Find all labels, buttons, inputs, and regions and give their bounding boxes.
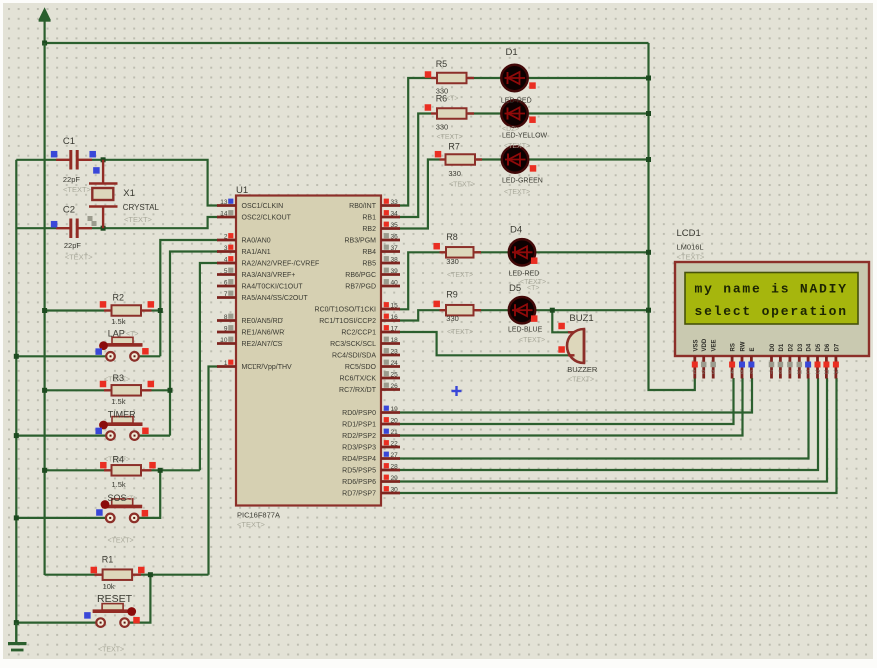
label D4 — [510, 225, 522, 236]
LCD1 TEXT placeholder — [677, 253, 706, 262]
wire pin19 to LCD E — [399, 378, 752, 413]
svg-text:RB0/INT: RB0/INT — [349, 203, 377, 210]
svg-text:6: 6 — [750, 370, 753, 376]
wire pin21 to LCD RW — [399, 378, 743, 436]
svg-text:<TEXT>: <TEXT> — [568, 377, 594, 384]
LCD pin 3 number — [710, 362, 716, 376]
terminal marker R1 right — [138, 567, 145, 574]
resistor R5 — [431, 73, 474, 84]
U1 pin label RD2/PSP2 — [342, 433, 376, 440]
wire TIMER button right — [139, 435, 170, 437]
LCD1 reference label — [677, 228, 701, 239]
svg-text:OSC2/CLKOUT: OSC2/CLKOUT — [242, 215, 292, 222]
U1 pin label RD6/PSP6 — [342, 479, 376, 486]
U1 pin 36 number — [384, 233, 398, 240]
terminal marker RESET left — [84, 612, 91, 619]
LCD pin 6 number — [748, 362, 754, 377]
svg-text:16: 16 — [391, 314, 399, 321]
svg-text:C2: C2 — [63, 205, 75, 216]
svg-text:LED-YELLOW: LED-YELLOW — [502, 133, 548, 140]
svg-text:22pF: 22pF — [64, 241, 82, 250]
svg-text:RD4/PSP4: RD4/PSP4 — [342, 456, 376, 463]
svg-text:R2: R2 — [113, 293, 125, 303]
wire LAP button right — [139, 355, 161, 357]
svg-text:RB2: RB2 — [362, 226, 376, 233]
svg-text:RE0/AN5/RD: RE0/AN5/RD — [242, 318, 283, 325]
U1 pin 34 stub — [381, 216, 400, 219]
wire pin29 to LCD D6 — [399, 378, 827, 482]
svg-text:LED-RED: LED-RED — [501, 98, 532, 105]
U1 pin label RC2/CCP1 — [341, 330, 376, 337]
svg-text:<TEXT>: <TEXT> — [98, 647, 124, 654]
svg-text:<TEXT>: <TEXT> — [437, 134, 463, 141]
svg-text:30: 30 — [391, 487, 399, 494]
label R8 value 330 — [446, 257, 459, 266]
U1 pin 15 stub — [381, 308, 400, 311]
svg-text:24: 24 — [391, 360, 399, 367]
LCD pin 9 D2 label — [788, 343, 794, 351]
label TIMER — [108, 410, 136, 420]
label R5 value 330 — [436, 87, 449, 96]
svg-text:35: 35 — [391, 222, 399, 229]
LCD text line 1 — [695, 282, 848, 297]
svg-text:D5: D5 — [816, 343, 822, 351]
U1 pin 35 stub — [381, 227, 400, 230]
svg-text:RA0/AN0: RA0/AN0 — [242, 238, 271, 245]
terminal marker R4 left — [100, 462, 107, 469]
svg-text:4: 4 — [224, 257, 228, 264]
LCD1 value label LM016L — [677, 243, 704, 252]
U1 pin 33 number — [384, 199, 398, 206]
junction ground rail at LAP — [14, 354, 19, 359]
U1 pin 5 number — [224, 268, 234, 275]
U1 pin 21 number — [384, 429, 398, 436]
svg-text:RA4/T0CKI/C1OUT: RA4/T0CKI/C1OUT — [242, 284, 304, 291]
junction D5 row at buzzer branch — [550, 308, 555, 313]
svg-text:LED-RED: LED-RED — [509, 271, 540, 278]
U1 pin 9 number — [224, 325, 234, 332]
wire ground rail to C2 — [16, 227, 56, 229]
svg-text:19: 19 — [391, 406, 399, 413]
push button TIMER knob — [99, 421, 108, 430]
svg-text:20: 20 — [391, 418, 399, 425]
U1 pin label RE1/AN6/WR — [242, 330, 285, 337]
U1 pin 6 stub — [217, 285, 236, 288]
svg-text:8: 8 — [779, 370, 782, 376]
label C1 — [63, 136, 75, 147]
U1 pin label RC6/TX/CK — [339, 376, 376, 383]
svg-text:9: 9 — [224, 326, 228, 333]
wire TIMER button left to ground rail — [16, 435, 106, 437]
svg-text:9: 9 — [789, 370, 792, 376]
label R6 — [436, 94, 459, 104]
LCD pin 4 RS stub — [731, 356, 734, 379]
svg-text:RB5: RB5 — [362, 261, 376, 268]
svg-text:TIMER: TIMER — [108, 410, 136, 420]
LCD pin 14 D7 label — [834, 343, 840, 351]
svg-text:22: 22 — [391, 441, 399, 448]
svg-text:RD5/PSP5: RD5/PSP5 — [342, 468, 376, 475]
LED D5 blue — [509, 297, 535, 323]
svg-text:5: 5 — [741, 370, 744, 376]
svg-text:14: 14 — [833, 370, 839, 376]
U1 pin 15 number — [384, 302, 398, 309]
LCD pin 10 D3 stub — [798, 356, 801, 379]
U1 pin 13 number — [220, 199, 233, 206]
svg-text:R5: R5 — [436, 59, 448, 69]
U1 pin 33 stub — [381, 204, 400, 207]
label D4 value LED-RED — [509, 271, 540, 278]
U1 pin 9 stub — [217, 331, 236, 334]
resistor R2 — [104, 305, 152, 316]
terminal marker R7 left — [435, 151, 442, 158]
label BUZ1 TEXT placeholder — [568, 377, 594, 384]
LCD pin 6 E label — [750, 347, 756, 351]
LCD pin 14 number — [833, 362, 839, 377]
buzzer BUZ1 — [567, 329, 584, 363]
svg-text:R8: R8 — [446, 232, 458, 242]
LCD pin 4 RS label — [731, 343, 737, 351]
svg-text:<D2>: <D2> — [502, 126, 519, 133]
svg-text:RA1/AN1: RA1/AN1 — [242, 249, 271, 256]
U1 pin 29 stub — [381, 480, 400, 483]
resistor R8 — [440, 247, 482, 257]
svg-text:LM016L: LM016L — [677, 243, 704, 252]
LCD pin 7 D0 label — [770, 343, 776, 351]
wire pin33 to R5 — [399, 78, 431, 206]
U1 pin 38 stub — [381, 262, 400, 265]
svg-text:25: 25 — [391, 372, 399, 379]
svg-text:5: 5 — [224, 268, 228, 275]
svg-text:40: 40 — [391, 280, 399, 287]
LCD pin 9 D2 stub — [789, 356, 792, 379]
svg-text:<TEXT>: <TEXT> — [504, 143, 530, 150]
junction VCC rail at power stem — [42, 41, 47, 46]
svg-text:LCD1: LCD1 — [677, 228, 701, 239]
U1 pin 3 number — [224, 245, 234, 252]
U1 pin label RC5/SDO — [345, 364, 377, 371]
svg-text:VSS: VSS — [693, 339, 699, 351]
U1 pin 40 number — [384, 279, 398, 286]
terminal marker R6 left — [425, 104, 432, 111]
junction ground rail at RESET — [14, 620, 19, 625]
label C2 — [63, 205, 75, 216]
LCD pin 8 number — [778, 362, 784, 376]
svg-text:D4: D4 — [510, 225, 522, 236]
svg-text:1.5k: 1.5k — [112, 480, 126, 489]
U1 pin label RC3/SCK/SCL — [330, 341, 376, 348]
svg-text:<TEXT>: <TEXT> — [447, 272, 473, 279]
label R1 value 10k — [103, 582, 115, 591]
U1 pin 13 stub — [217, 204, 236, 207]
wire SOS button right vertical — [139, 470, 161, 518]
LCD pin 1 VSS label — [693, 339, 699, 351]
label X1 TEXT placeholder — [124, 215, 153, 224]
svg-text:<TEXT>: <TEXT> — [108, 538, 134, 545]
wire VCC top rail — [45, 42, 649, 44]
U1 pin label RC1/T1OSI/CCP2 — [319, 318, 376, 325]
svg-text:D1: D1 — [779, 343, 785, 351]
svg-text:36: 36 — [391, 234, 399, 241]
U1 pin 40 stub — [381, 285, 400, 288]
wire pin27 to LCD D4 — [399, 378, 809, 459]
U1 pin 39 stub — [381, 273, 400, 276]
svg-text:VEE: VEE — [712, 339, 718, 351]
wire LED D5 to VCC bus — [534, 309, 649, 311]
U1 pin label RA1/AN1 — [242, 249, 271, 256]
svg-text:RD1/PSP1: RD1/PSP1 — [342, 422, 376, 429]
resistor R7 — [440, 154, 483, 165]
svg-text:<TEXT>: <TEXT> — [519, 337, 545, 344]
U1 pin 26 number — [384, 383, 398, 390]
label RESET TEXT placeholder — [98, 647, 124, 654]
terminal marker D4 right — [531, 257, 538, 264]
U1 pin label RA3/AN3/VREF+ — [242, 272, 296, 279]
svg-text:E: E — [750, 347, 756, 351]
wire ground rail to C1 — [16, 159, 56, 161]
svg-text:8: 8 — [224, 314, 228, 321]
wire R8 to LED D4 — [476, 251, 510, 253]
svg-text:LED-BLUE: LED-BLUE — [508, 327, 543, 334]
svg-text:<TEXT>: <TEXT> — [677, 253, 706, 262]
LCD pin 12 D5 label — [816, 343, 822, 351]
wire R2 to LAP to pin2 net — [152, 240, 219, 356]
U1 pin 22 stub — [381, 446, 400, 449]
U1 value label PIC16F877A — [237, 511, 280, 520]
svg-text:D3: D3 — [798, 343, 804, 351]
LCD pin 3 VEE label — [712, 339, 718, 351]
junction VCC bus at D1 row — [646, 76, 651, 81]
LCD screen — [685, 273, 858, 325]
svg-text:1: 1 — [224, 360, 228, 367]
terminal marker X1 — [93, 167, 100, 174]
svg-text:34: 34 — [391, 211, 399, 218]
svg-text:29: 29 — [391, 475, 399, 482]
terminal marker R4 right — [149, 462, 156, 469]
U1 pin label RB4 — [362, 249, 376, 256]
svg-text:10k: 10k — [103, 582, 115, 591]
svg-text:LAP: LAP — [108, 329, 125, 339]
svg-text:2: 2 — [702, 370, 705, 376]
U1 pin 16 stub — [381, 319, 400, 322]
label SOS TEXT placeholder — [108, 538, 134, 545]
U1 pin label RD4/PSP4 — [342, 456, 376, 463]
label R1 — [102, 555, 114, 565]
U1 TEXT placeholder — [237, 520, 266, 529]
capacitor C2 — [56, 219, 92, 239]
push button LAP — [103, 337, 143, 360]
U1 pin 17 number — [384, 325, 398, 332]
U1 pin 25 stub — [381, 377, 400, 380]
terminal marker R9 left — [433, 301, 440, 308]
wire R6 to LED D2 — [468, 112, 503, 114]
svg-text:<TEXT>: <TEXT> — [124, 215, 153, 224]
U1 pin label RD5/PSP5 — [342, 468, 376, 475]
U1 pin 2 number — [224, 233, 234, 240]
svg-text:RC0/T1OSO/T1CKI: RC0/T1OSO/T1CKI — [315, 307, 377, 314]
label D5 value LED-BLUE — [508, 327, 543, 334]
U1 pin label RC7/RX/DT — [339, 387, 377, 394]
LCD pin 11 number — [805, 362, 811, 377]
LCD pin 1 number — [692, 362, 698, 377]
U1 pin label RD0/PSP0 — [342, 410, 376, 417]
label R9 value 330 — [446, 314, 459, 323]
U1 pin 6 number — [224, 279, 234, 286]
label D2 value LED-YELLOW — [502, 126, 548, 140]
svg-text:RD2/PSP2: RD2/PSP2 — [342, 433, 376, 440]
U1 pin 26 stub — [381, 388, 400, 391]
ground symbol — [8, 623, 27, 652]
U1 pin label RD3/PSP3 — [342, 445, 376, 452]
U1 pin 4 stub — [217, 262, 236, 265]
terminal marker LAP left — [95, 348, 102, 355]
U1 pin label RD1/PSP1 — [342, 422, 376, 429]
LCD pin 12 D5 stub — [816, 356, 819, 379]
U1 pin 34 number — [384, 210, 398, 217]
U1 pin 23 stub — [381, 354, 400, 357]
U1 pin 23 number — [384, 348, 398, 355]
LCD text line 2 — [695, 304, 848, 319]
wire LAP button left to ground rail — [16, 355, 106, 357]
LCD pin 14 D7 stub — [835, 356, 838, 379]
terminal marker R2 left — [100, 301, 107, 308]
LCD pin 3 VEE stub — [712, 356, 715, 379]
terminal marker C1 left — [51, 151, 58, 158]
svg-text:OSC1/CLKIN: OSC1/CLKIN — [242, 203, 284, 210]
U1 pin 37 stub — [381, 250, 400, 253]
LCD pin 5 RW stub — [741, 356, 744, 379]
U1 pin 39 number — [384, 268, 398, 275]
svg-text:BUZZER: BUZZER — [567, 365, 598, 374]
label C2 TEXT placeholder — [65, 253, 94, 262]
U1 pin 27 number — [384, 452, 398, 459]
svg-text:RA2/AN2/VREF-/CVREF: RA2/AN2/VREF-/CVREF — [242, 261, 320, 268]
label C1 TEXT placeholder — [63, 185, 92, 194]
U1 pin 36 stub — [381, 239, 400, 242]
terminal marker R1 left — [91, 567, 98, 574]
svg-text:3: 3 — [224, 245, 228, 252]
terminal marker RESET right — [133, 617, 140, 624]
U1 pin 10 number — [220, 337, 233, 344]
svg-text:14: 14 — [220, 211, 228, 218]
svg-text:<T>: <T> — [125, 496, 137, 503]
terminal marker R5 left — [425, 71, 432, 78]
svg-text:R9: R9 — [446, 290, 458, 300]
label R2 — [113, 293, 125, 303]
label LAP — [108, 329, 139, 339]
wire pin30 to LCD D7 — [399, 378, 837, 493]
terminal marker D3 right — [530, 165, 537, 172]
label D1 — [506, 47, 518, 58]
svg-text:37: 37 — [391, 245, 399, 252]
junction VCC rail at R4 — [42, 468, 47, 473]
U1 pin 18 stub — [381, 342, 400, 345]
svg-text:RB6/PGC: RB6/PGC — [345, 272, 376, 279]
U1 pin 20 stub — [381, 423, 400, 426]
wire LED D2 to VCC bus — [526, 112, 649, 114]
svg-text:RC1/T1OSI/CCP2: RC1/T1OSI/CCP2 — [319, 318, 376, 325]
U1 pin 28 stub — [381, 469, 400, 472]
svg-text:D7: D7 — [834, 343, 840, 351]
svg-text:U1: U1 — [236, 185, 248, 196]
svg-text:MCLR/Vpp/THV: MCLR/Vpp/THV — [242, 364, 293, 371]
U1 pin 37 number — [384, 245, 398, 252]
U1 pin 20 number — [384, 417, 398, 424]
wire R3 to TIMER to pin3 net — [152, 252, 219, 436]
LCD pin 1 VSS stub — [693, 356, 696, 379]
svg-text:23: 23 — [391, 349, 399, 356]
push button TIMER — [103, 417, 143, 440]
svg-text:D1: D1 — [506, 47, 518, 58]
svg-text:RW: RW — [741, 341, 747, 351]
LCD pin 5 RW label — [741, 341, 747, 351]
U1 pin 30 stub — [381, 492, 400, 495]
push button RESET knob — [127, 607, 136, 616]
label R7 — [448, 142, 460, 152]
svg-text:13: 13 — [824, 370, 830, 376]
svg-text:RC3/SCK/SCL: RC3/SCK/SCL — [330, 341, 376, 348]
U1 pin 7 stub — [217, 296, 236, 299]
svg-text:330: 330 — [446, 314, 459, 323]
U1 pin 5 stub — [217, 273, 236, 276]
LCD LCD1 LM016L body — [675, 262, 869, 356]
push button SOS knob — [101, 500, 110, 509]
svg-text:<TEXT>: <TEXT> — [447, 329, 473, 336]
resistor R4 — [104, 465, 152, 476]
svg-text:7: 7 — [770, 370, 773, 376]
svg-text:RE2/AN7/CS: RE2/AN7/CS — [242, 341, 283, 348]
U1 pin 25 number — [384, 371, 398, 378]
terminal marker BUZ1 top — [558, 323, 565, 330]
U1 pin label RC4/SDI/SDA — [332, 353, 376, 360]
U1 pin label RB2 — [362, 226, 376, 233]
terminal marker R2 right — [148, 301, 155, 308]
U1 pin label RB1 — [362, 215, 376, 222]
U1 pin 8 stub — [217, 319, 236, 322]
U1 pin label RB7/PGD — [345, 284, 376, 291]
U1 pin 19 number — [384, 406, 398, 413]
label D3 value LED-GREEN — [502, 178, 543, 185]
svg-text:RC6/TX/CK: RC6/TX/CK — [339, 376, 376, 383]
svg-text:2: 2 — [224, 234, 228, 241]
svg-text:R4: R4 — [113, 455, 125, 465]
push button RESET — [93, 604, 133, 627]
terminal marker SOS left — [96, 509, 103, 516]
terminal marker D1 right — [529, 82, 536, 89]
resistor R1 — [95, 569, 142, 580]
wire R5 to LED D1 — [468, 77, 503, 79]
label TIMER TEXT placeholder — [104, 457, 130, 464]
label BUZ1 — [569, 313, 593, 324]
U1 pin 30 number — [384, 486, 398, 493]
label R8 TEXT placeholder — [447, 272, 473, 279]
LCD pin 7 D0 stub — [770, 356, 773, 379]
label R3 value 1.5k — [111, 397, 125, 406]
U1 pin label OSC1/CLKIN — [242, 203, 284, 210]
push button LAP knob — [99, 341, 108, 350]
U1 pin 4 number — [224, 256, 234, 263]
wire VCC rail to R1 — [45, 574, 95, 576]
svg-text:R1: R1 — [102, 555, 114, 565]
push button SOS — [102, 499, 142, 522]
U1 pin 24 stub — [381, 365, 400, 368]
LCD pin 13 number — [823, 362, 829, 377]
svg-text:12: 12 — [815, 370, 821, 376]
LCD pin 6 E stub — [750, 356, 753, 379]
wire LED D4 to VCC bus — [534, 251, 649, 253]
junction R2 right node — [158, 308, 163, 313]
U1 pin label RA0/AN0 — [242, 238, 271, 245]
